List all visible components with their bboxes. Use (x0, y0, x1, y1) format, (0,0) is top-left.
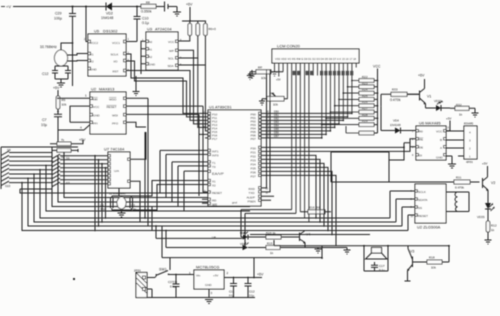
wire VCC vertical rail (374, 69, 378, 134)
resistor R15 1k (254, 242, 347, 256)
wire serial feeders to LED drivers (241, 210, 296, 245)
diode VD4 1N4148 (381, 119, 416, 134)
svg-text:TXD: TXD (249, 191, 256, 195)
wire U3 WP down (178, 50, 208, 124)
svg-text:0.470k: 0.470k (390, 98, 401, 102)
wire crystal caps rail + ground (55, 66, 68, 87)
transistor V1 (407, 79, 431, 108)
svg-text:+5V: +5V (79, 138, 86, 142)
svg-text:VCC: VCC (373, 65, 381, 69)
wire top +V rail (13, 6, 162, 8)
svg-text:R18: R18 (429, 256, 435, 260)
svg-text:GND: GND (205, 283, 213, 287)
capacitor C17 0.1u (371, 262, 385, 272)
wire U5 RST to P1 staircase (126, 71, 208, 121)
svg-text:WP: WP (169, 49, 174, 53)
svg-text:+5V: +5V (186, 3, 193, 7)
svg-text:VCC: VCC (436, 130, 443, 134)
resistor R33 0.470k (381, 88, 420, 107)
svg-text:RESET: RESET (212, 191, 222, 195)
U1 left pins T1 T0 (208, 161, 216, 169)
resistor R24 (359, 88, 374, 95)
svg-text:1k: 1k (491, 228, 495, 232)
svg-text:0.1µ: 0.1µ (229, 294, 235, 298)
LCM pin wires down (275, 63, 357, 222)
wire MR pull-up (58, 97, 90, 99)
svg-text:WDO: WDO (109, 97, 117, 101)
keyboard left column switches S8-S15 rows (1, 147, 52, 189)
svg-text:GND: GND (93, 114, 101, 118)
svg-text:EA/VP: EA/VP (212, 171, 224, 176)
wire lower staircase (left of serial bus) (140, 132, 250, 258)
svg-text:SS: SS (418, 206, 422, 210)
svg-text:MC78L05CG: MC78L05CG (196, 265, 219, 270)
svg-text:DB7: DB7 (274, 135, 279, 138)
speaker B1 (364, 246, 388, 271)
svg-text:+5V: +5V (53, 86, 60, 90)
pin digits specks (84, 39, 450, 218)
wire MAX485 B A to connector (446, 131, 464, 168)
svg-text:U2: U2 (91, 87, 97, 92)
IC U2 MAX813 (90, 87, 126, 135)
svg-text:VCC2: VCC2 (90, 41, 98, 45)
svg-text:V3: V3 (410, 250, 414, 254)
capacitor C29 100u (54, 6, 76, 25)
resistor R26 (359, 100, 374, 107)
resistor RK2 7k (52, 149, 78, 160)
svg-text:R8: R8 (146, 0, 150, 4)
resistor R32 1k (450, 103, 475, 117)
svg-text:U6 MAX485: U6 MAX485 (419, 121, 441, 126)
svg-text:+5V: +5V (213, 274, 218, 278)
svg-text:C7: C7 (42, 118, 47, 122)
svg-text:GND: GND (149, 63, 157, 67)
svg-text:C12: C12 (249, 290, 255, 294)
resistor network R6x3 pull-ups (188, 21, 216, 36)
svg-text:R0: R0 (419, 130, 423, 134)
capacitor C13 (crystal load) (65, 66, 71, 79)
wire 2PIN lower pin to ground rail (147, 289, 152, 298)
U1 pins X1 X2 (208, 179, 216, 187)
svg-text:U1 AT89C51: U1 AT89C51 (209, 105, 232, 110)
wire speaker net rail (274, 240, 449, 258)
wire keyboard lines up to P1.6 P1.7 (199, 134, 208, 140)
keyboard right column switches S1-S7 rows (52, 147, 108, 189)
svg-text:U5: U5 (94, 29, 100, 34)
transistor V4 (288, 231, 310, 248)
svg-text:0.1µ: 0.1µ (379, 268, 385, 272)
svg-text:R25: R25 (362, 94, 368, 98)
wire SDA net down to P1 (205, 65, 208, 131)
U1 left pins INT1 INT0 (208, 149, 219, 157)
wire power rail (+V bottom) (162, 257, 322, 259)
svg-text:GND: GND (436, 156, 444, 160)
svg-text:R20 1k: R20 1k (266, 231, 276, 235)
svg-text:P07: P07 (251, 137, 257, 141)
svg-text:1k: 1k (270, 251, 274, 255)
svg-text:B: B (440, 138, 442, 142)
svg-text:R23: R23 (362, 81, 368, 85)
IC U7 74C164 (104, 147, 130, 189)
svg-text:R6×3: R6×3 (209, 27, 217, 31)
svg-text:+5V: +5V (418, 74, 425, 78)
svg-text:S7: S7 (66, 181, 70, 185)
resistor R23 (359, 81, 374, 88)
svg-text:7k: 7k (61, 138, 65, 142)
svg-text:V2: V2 (491, 181, 495, 185)
svg-text:gnd: gnd (232, 201, 237, 205)
svg-text:0.350k: 0.350k (141, 10, 152, 14)
svg-text:10k: 10k (261, 76, 266, 80)
svg-text:T0: T0 (212, 165, 216, 169)
svg-text:SDATA: SDATA (418, 198, 428, 202)
ground (battery) (173, 7, 181, 17)
resistor RK1 7k (50, 138, 83, 146)
svg-text:0.470k: 0.470k (455, 186, 465, 190)
U1 pins RD WR GND (202, 198, 237, 206)
svg-text:U/A: U/A (114, 169, 119, 173)
wire 78L05 ground leg (208, 289, 210, 298)
wire U2 right pins out (126, 98, 203, 127)
svg-text:MAX813: MAX813 (99, 87, 115, 92)
svg-text:A1: A1 (149, 48, 153, 52)
svg-text:VD4: VD4 (393, 119, 399, 123)
wire C29 net to U5 VCC2 (73, 7, 89, 87)
resistor R27 (359, 107, 374, 114)
wire U7 outputs right (119, 132, 146, 196)
transistor V3 (405, 246, 415, 281)
LED VD36 (426, 99, 451, 111)
junction dots on buses (73, 20, 450, 280)
svg-text:U2 ZLG500A: U2 ZLG500A (417, 225, 441, 230)
svg-text:C11: C11 (229, 290, 235, 294)
svg-text:I/O: I/O (114, 60, 119, 64)
IC U5 DS1302 (88, 29, 126, 77)
svg-text:C12: C12 (42, 72, 48, 76)
svg-text:DE: DE (419, 146, 423, 150)
resistor R29 (359, 119, 374, 126)
wire MAX813 RESET to U1 RESET (148, 98, 208, 218)
svg-text:1N4148: 1N4148 (390, 123, 401, 127)
wire serial loop (MAX485 routing) (331, 106, 389, 182)
svg-text:A2: A2 (149, 55, 153, 59)
svg-text:C29: C29 (55, 12, 61, 16)
U1 pin RESET (208, 191, 210, 193)
LED VD35 (477, 193, 495, 221)
svg-text:R33: R33 (392, 88, 398, 92)
svg-text:10µ: 10µ (41, 123, 47, 127)
svg-text:VSS VDD VO RS RW E D0 D1 D2 D3: VSS VDD VO RS RW E D0 D1 D2 D3 D4 D5 D6 … (275, 57, 357, 61)
svg-text:C10: C10 (142, 17, 148, 21)
resistor R30 (bottom of ladder) (346, 126, 374, 135)
svg-text:VD35: VD35 (477, 215, 485, 219)
wire P0.0-P0.7 to LCM risers (261, 113, 353, 139)
crystal Y2 32.768kHz (40, 42, 88, 66)
svg-text:P17: P17 (212, 137, 218, 141)
wire bundle bottom rows to INT/T pins (160, 150, 208, 211)
svg-text:Vin: Vin (196, 274, 201, 278)
svg-text:U3: U3 (147, 27, 153, 32)
battery GB (162, 2, 173, 12)
capacitor C12b 0.1u (245, 278, 255, 298)
resistor RP 10k (contrast) (247, 66, 283, 81)
wire U5 I/O to P1 staircase (126, 61, 208, 117)
svg-text:2PIN: 2PIN (134, 269, 141, 273)
wire +5V to pull-up rail (182, 7, 206, 21)
ground (R12) (485, 240, 492, 244)
resistor R20 1k (254, 231, 288, 239)
wire pull-up R6a down to U3 VCC (178, 36, 190, 42)
IC U2 ZLG500A (415, 184, 446, 230)
svg-text:R16 2M: R16 2M (309, 206, 320, 210)
svg-text:10k: 10k (431, 266, 436, 270)
antenna coil L1 (446, 192, 469, 212)
connector RS485 4PIN (464, 122, 477, 165)
svg-text:R11: R11 (456, 176, 462, 180)
svg-text:4PIN: 4PIN (466, 160, 473, 164)
IC N1 MC78L05CG (189, 265, 229, 296)
wire 78L05 output (147, 258, 262, 278)
svg-text:RS485: RS485 (464, 122, 474, 126)
svg-text:0.1µ: 0.1µ (142, 21, 149, 25)
svg-text:R24: R24 (362, 88, 368, 92)
svg-text:S15: S15 (5, 184, 11, 188)
ground (U5 GND stub) (133, 76, 140, 96)
wire RXD TXD up verticals (261, 70, 270, 192)
capacitor C2 30p (100, 198, 113, 211)
resistor R16 2M (300, 206, 331, 214)
label P0x tiny above wires right of U1 (266, 111, 279, 139)
svg-text:VCC: VCC (168, 40, 175, 44)
connector 2PIN (power input) (134, 269, 147, 298)
U1 right pins RXD TXD ALE PSEN (247, 187, 262, 204)
svg-text:+5V: +5V (276, 79, 281, 82)
wire PFI (58, 90, 90, 122)
svg-text:R12: R12 (491, 224, 497, 228)
svg-text:A0: A0 (149, 40, 153, 44)
svg-text:P27: P27 (251, 174, 257, 178)
wire MAX485 RE DE tie (389, 139, 416, 160)
svg-text:R27: R27 (362, 107, 368, 111)
wire ladder taps to risers (321, 80, 359, 126)
wire U5 VCC1 to C10 net (126, 21, 137, 42)
capacitor C11 0.1u (229, 278, 237, 298)
capacitor C27 0.1u (168, 275, 194, 298)
svg-text:DI: DI (419, 154, 422, 158)
svg-text:R22: R22 (362, 75, 368, 79)
wire SCL net down to P1 (198, 58, 208, 127)
U1 right pin boxes P2.0-P2.7 (251, 146, 262, 178)
switch SW1 (147, 258, 176, 278)
svg-text:R15: R15 (267, 242, 273, 246)
ground (near LCM RW) (248, 70, 256, 78)
svg-text:U7 74C164: U7 74C164 (104, 147, 125, 152)
wire serial bus lines (245, 191, 415, 235)
svg-text:X2: X2 (212, 184, 216, 188)
svg-text:10k: 10k (273, 103, 278, 107)
svg-text:30p: 30p (100, 207, 105, 211)
svg-text:SW1: SW1 (159, 268, 167, 272)
svg-text:R28: R28 (362, 113, 368, 117)
wire keyboard staircase bundle to right (20, 152, 250, 231)
wire P2.0-P2.7 drops to bus (261, 147, 410, 246)
IC U1 AT89C51 (MCU) (208, 105, 261, 207)
resistor R9 10k (56, 90, 67, 109)
svg-text:SCLK: SCLK (418, 190, 426, 194)
LED VD31 (240, 242, 254, 250)
wire U5 SCLK to P1 staircase (126, 54, 208, 113)
svg-text:WR: WR (212, 202, 218, 206)
svg-text:1k: 1k (459, 113, 463, 117)
svg-text:DS1302: DS1302 (103, 29, 118, 34)
LED VD32 (240, 231, 254, 240)
resistor R18 10k (413, 246, 450, 270)
potentiometer RP 10k (259, 92, 287, 107)
IC U3 AT24C04 (146, 27, 178, 71)
capacitor C12 (crystal load) (42, 66, 58, 79)
svg-text:11.0592MHz: 11.0592MHz (109, 192, 126, 196)
svg-text:VCC: VCC (93, 105, 100, 109)
ground (regulator) (147, 298, 255, 304)
svg-text:+5V: +5V (446, 117, 451, 121)
label row P2x under LCM pins 5-8 (293, 71, 314, 75)
U1 right pin boxes P0.0-P0.7 (251, 112, 262, 141)
svg-text:RESET: RESET (107, 105, 117, 109)
ground (R32) (472, 108, 479, 117)
svg-text:RP: RP (258, 66, 262, 70)
svg-text:VCC1: VCC1 (112, 41, 120, 45)
wire pull-up R6b down (SCL net) (178, 36, 198, 59)
svg-text:RE: RE (419, 138, 423, 142)
resistor R11 0.470k (331, 176, 480, 190)
svg-text:A: A (440, 146, 442, 150)
svg-text:PSEN: PSEN (248, 199, 256, 203)
capacitor C7 10u (41, 109, 90, 144)
svg-text:V4: V4 (306, 233, 310, 237)
svg-text:VD2: VD2 (106, 12, 113, 16)
wire U7 input taps down to bundle (94, 155, 106, 231)
svg-text:SCL: SCL (168, 57, 174, 61)
svg-text:LCM CON20: LCM CON20 (277, 44, 301, 49)
connector LCM CON20 (272, 44, 359, 64)
svg-text:R29: R29 (362, 119, 368, 123)
svg-text:R26: R26 (362, 100, 368, 104)
diode VD2 1N4148 (101, 3, 113, 21)
resistor R25 (359, 94, 374, 101)
resistor R8 0.350k (141, 0, 156, 13)
wire U3 address pins tie bus (141, 41, 146, 74)
svg-text:AT24C04: AT24C04 (155, 27, 172, 32)
capacitor C10 0.1u (134, 6, 149, 26)
resistor R28 (359, 113, 374, 120)
wire ALE PSEN stubs (261, 196, 274, 200)
svg-text:+5V: +5V (257, 273, 264, 277)
ground (LCM pin1) (272, 72, 278, 76)
svg-text:RESET: RESET (418, 214, 428, 218)
resistor R12 1k (486, 221, 497, 240)
svg-text:1N4148: 1N4148 (101, 16, 113, 20)
svg-text:SCLK: SCLK (111, 53, 119, 57)
transistor V2 (483, 166, 496, 193)
wire pull-up R6c down (SDA net) (178, 36, 205, 66)
label row DB0-DB7 under LCM pins 12-19 (320, 71, 353, 76)
svg-text:10k: 10k (62, 103, 67, 107)
svg-text:0.1µ: 0.1µ (249, 294, 255, 298)
svg-text:GND: GND (90, 68, 98, 72)
crystal Y1 11.0592MHz (109, 192, 126, 210)
ground (V4 emitter) (315, 248, 322, 254)
wire crystal to MCU X1 X2 + ground (112, 181, 208, 218)
svg-text:RST: RST (113, 70, 119, 74)
svg-text:PFO: PFO (112, 121, 119, 125)
svg-text:32.768kHz: 32.768kHz (40, 45, 57, 49)
svg-text:PFI: PFI (93, 121, 98, 125)
svg-text:+5V: +5V (482, 162, 487, 166)
svg-text:+V: +V (6, 4, 11, 9)
svg-text:INT0: INT0 (212, 154, 219, 158)
capacitor C3 30p (130, 198, 136, 211)
resistor R22 (359, 75, 374, 82)
U1 left pin boxes P1.0-P1.7 (208, 112, 218, 141)
ground (R15 right) (344, 248, 351, 255)
svg-text:WDI: WDI (112, 114, 118, 118)
svg-text:SDA: SDA (168, 64, 174, 68)
IC U6 MAX485 (416, 121, 446, 161)
svg-text:100µ: 100µ (54, 17, 62, 21)
svg-text:V1: V1 (427, 95, 431, 99)
